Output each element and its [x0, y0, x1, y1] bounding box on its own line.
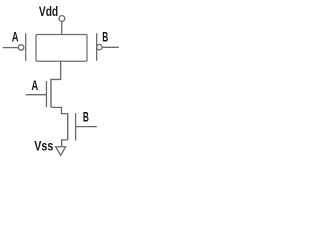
wire output node (box bottom to nmos QA drain) [51, 61, 61, 79]
wire input B (pmos) [103, 46, 119, 48]
svg-text:A: A [31, 79, 38, 94]
pmos QB gate bubble [97, 44, 102, 49]
nmos QA gate bar [45, 81, 47, 107]
PUN box (pull-up network rectangle) [36, 35, 87, 62]
svg-text:Vdd: Vdd [39, 4, 58, 20]
Vdd terminal circle [59, 16, 65, 22]
svg-text:A: A [12, 30, 19, 45]
pmos QA gate bubble [18, 45, 24, 51]
wire Vdd to PUN box [61, 22, 63, 35]
wire input B (nmos) [76, 126, 97, 128]
pmos QA gate bar [25, 33, 27, 60]
nmos QB channel bar [67, 113, 69, 140]
wire input A (pmos) [3, 47, 18, 49]
nmos QB gate bar [75, 113, 77, 140]
svg-text:B: B [102, 31, 108, 45]
nmos QA channel bar [50, 79, 52, 108]
pmos QB gate bar [96, 33, 98, 60]
wire nmos QA source to nmos QB drain [51, 107, 68, 113]
ground symbol (open triangle) [56, 147, 66, 156]
wire input A (nmos) [26, 94, 47, 96]
svg-text:B: B [83, 111, 89, 125]
svg-text:Vss: Vss [34, 138, 53, 154]
wire nmos QB source to ground [62, 140, 68, 147]
